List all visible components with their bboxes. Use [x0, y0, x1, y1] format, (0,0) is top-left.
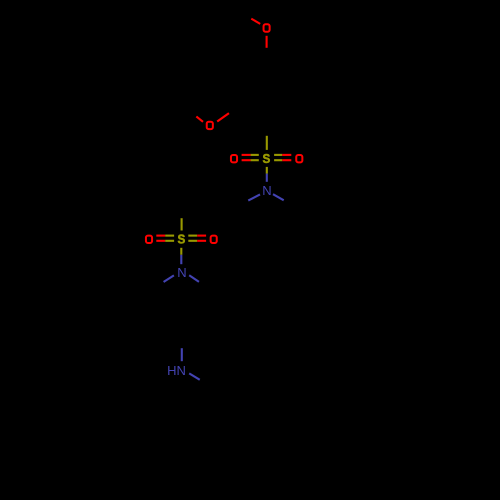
- svg-text:HN: HN: [167, 363, 186, 378]
- bond CH2c-S2 (carbon half): [181, 206, 183, 218]
- double bond S1=Oa line2: [242, 159, 251, 161]
- double bond S2=Od line1: [188, 235, 197, 237]
- bond N1-CH2a (nitrogen half): [248, 194, 260, 200]
- svg-text:S: S: [263, 152, 271, 167]
- bond C4-O1 (carbon half): [266, 48, 268, 60]
- double bond S2=Od line2: [188, 240, 197, 242]
- bond O1-CH3 methyl (red half): [251, 19, 260, 24]
- bond N1-CH3 N-methyl (nitrogen half): [273, 194, 284, 200]
- atom Oa sulfonyl oxygen left: [231, 155, 237, 162]
- chain bond CH2a-CH2b: [210, 191, 239, 208]
- double bond S2=Oc line1: [156, 235, 165, 237]
- atom Ob sulfonyl oxygen right: [296, 155, 302, 162]
- double bond S2=Oc line2: [156, 240, 165, 242]
- bond N3-R1 (nitrogen half): [189, 373, 200, 379]
- bond N3-R1 (carbon half): [200, 380, 211, 386]
- bond S1-N1 (nitrogen half): [266, 174, 268, 182]
- piperidine ring carbon bonds: [153, 289, 210, 339]
- svg-text:N: N: [177, 265, 186, 280]
- atom Od sulfonyl oxygen right: [211, 236, 217, 243]
- bottom ring carbon bonds: [181, 387, 238, 453]
- double bond S1=Oa line1: [242, 154, 251, 156]
- bond O1-CH3 methyl (carbon half): [242, 13, 251, 18]
- bond N1-CH2a (carbon half): [236, 201, 248, 207]
- bond C4-O1 (red half): [266, 36, 268, 48]
- svg-text:N: N: [262, 183, 271, 198]
- bond O2-C2 (red half): [217, 113, 229, 121]
- bond N2-Cb (carbon half): [199, 282, 209, 289]
- bond S2-N2 (nitrogen half): [180, 255, 182, 264]
- bond O2-C2 (carbon half): [229, 105, 241, 113]
- double bond S1=Ob line1: [274, 154, 282, 156]
- benzene ring C1-C6 (dark carbon bonds): [238, 59, 295, 125]
- atom O1 top methoxy: [264, 24, 270, 31]
- atom Oc sulfonyl oxygen left: [146, 236, 152, 243]
- bond Ce-N3 (nitrogen half): [181, 348, 183, 361]
- bond S2-N2 (sulfur half): [180, 248, 182, 255]
- bond S1-N1 (sulfur half): [266, 167, 268, 174]
- bond CH2c-S2 (sulfur half): [181, 218, 183, 230]
- double bond S1=Ob line2: [274, 159, 282, 161]
- chain bond CH2b-CH2c: [181, 191, 210, 208]
- bond O2-CH3 methyl (carbon half): [190, 111, 197, 116]
- bond N2-Ca (carbon half): [153, 282, 163, 289]
- bond C1-S1 (sulfur half): [266, 136, 268, 150]
- bond O2-CH3 methyl (red half): [196, 116, 203, 121]
- bond N2-Ca (nitrogen half): [164, 275, 174, 282]
- bond C1-S1 (carbon half): [266, 122, 268, 136]
- bond Ce-N3 (carbon half): [181, 335, 183, 348]
- bond N2-Cb (nitrogen half): [189, 275, 199, 282]
- bond N1-CH3 N-methyl (carbon half): [284, 200, 295, 206]
- atom O2 left methoxy: [207, 122, 213, 129]
- svg-text:S: S: [177, 232, 185, 247]
